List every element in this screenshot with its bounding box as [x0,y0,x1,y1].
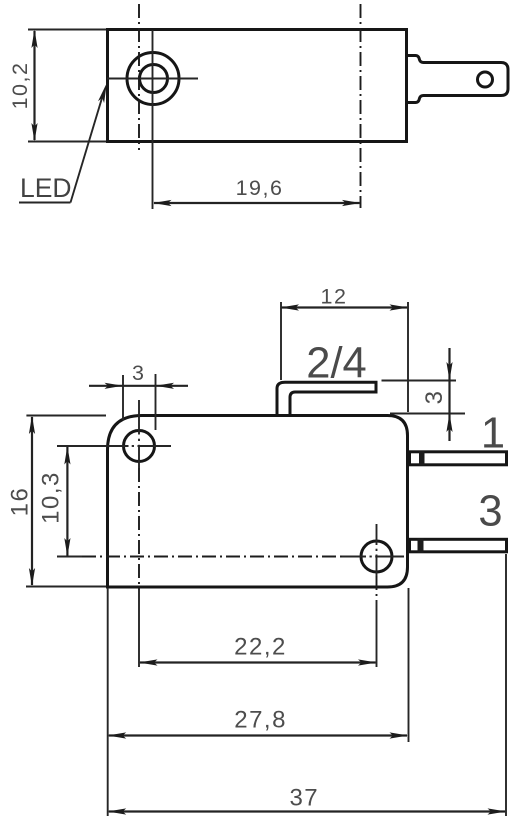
tab hole [478,72,493,87]
dimension 12 line [282,306,408,308]
extension 12 left [280,302,282,380]
extension body left bottom [107,588,109,816]
arrow 3 right pointing down [446,362,452,381]
svg-text:10,2: 10,2 [8,62,32,110]
dimension 3 right vertical line [448,348,450,441]
svg-text:LED: LED [20,173,72,203]
sensing face outer circle [127,53,179,105]
terminal 2/4 bent strip [277,382,376,415]
extension 3 right [155,374,157,430]
arrow 10,2 down [31,123,37,142]
terminal 3 crimp divider [418,539,424,554]
mounting hole right [361,541,392,572]
svg-text:10,3: 10,3 [38,471,65,524]
arrow 10,3 down [64,538,70,557]
connector tab (top view blade) [408,56,508,103]
housing body (top view rectangle) [108,30,407,142]
terminal 1 crimp divider [419,451,425,466]
arrow 19,6 left [153,200,172,206]
dimension 10,2 extension top [28,29,106,31]
hole centerline dash-dot continuation [138,468,140,590]
arrow 10,3 up [64,446,70,465]
crosshair vertical / extension line for 19,6 [152,30,154,209]
dimension 10,3 line [66,447,68,556]
svg-text:3: 3 [421,390,448,405]
dimension 22,2 line [140,661,376,663]
centerline dash-dot at x=360.5 [360,4,362,208]
svg-text:1: 1 [481,410,505,458]
extension body right bottom [408,588,410,742]
arrow 22,2 right [358,659,377,665]
extension for 3 right bottom (body top) [390,413,465,415]
crosshair horizontal through sensing face [107,78,198,80]
centerline (hole axis) dash-dot at x=139 [138,4,140,150]
extension terminal tip [505,554,507,816]
svg-text:3: 3 [132,361,145,385]
hole centerline vertical left [138,400,140,435]
arrow 3 pointing right [105,383,124,389]
arrow 16 up [29,416,35,435]
hole crosshair horizontal left [57,445,129,447]
arrow 27,8 left [108,732,127,738]
hole centerline vertical right [376,524,378,545]
arrow 19,6 right [342,200,361,206]
dimension 27,8 line [109,734,407,736]
dimension 37 line [109,810,505,812]
arrow 3 right pointing up [446,414,452,433]
arrow 12 right [390,304,409,310]
svg-text:37: 37 [289,785,319,812]
body horizontal centerline [57,556,82,558]
svg-text:3: 3 [478,488,502,536]
dimension 10,2 extension bottom [28,141,106,143]
arrow 37 left [108,808,127,814]
extension 12 right / 27,8 right [407,302,409,412]
extension of left hole axis to 22,2 [138,590,140,667]
arrow 12 left [281,304,300,310]
LED underline [19,202,71,204]
arrow 16 down [29,568,35,587]
svg-text:27,8: 27,8 [234,707,287,734]
LED leader line [71,93,104,203]
arrow 37 right [488,808,507,814]
LED leader arrowhead [98,83,107,103]
dimension 3 (hole dia) line [89,385,188,387]
dimension 10,2 line [33,31,35,140]
extension 3 left [122,375,124,420]
extension 16 bottom [26,586,106,588]
svg-text:16: 16 [7,487,34,517]
sensing face inner circle [140,65,168,93]
svg-text:22,2: 22,2 [234,634,287,661]
extension 16 top [26,415,106,417]
mounting hole left [124,431,155,462]
svg-text:12: 12 [321,284,348,308]
arrow 10,2 up [31,30,37,49]
dimension 19,6 line [154,202,360,204]
dimension 16 line [31,417,33,585]
terminal 3 blade outline [410,539,507,552]
arrow 3 pointing left [156,383,175,389]
svg-text:2/4: 2/4 [306,339,366,387]
terminal 1 blade outline [410,452,507,465]
svg-text:19,6: 19,6 [236,176,284,200]
arrow 22,2 left [139,659,158,665]
extension for 3 right top (wire top) [382,380,457,382]
switch body outline [108,416,408,588]
arrow 27,8 right [390,732,409,738]
